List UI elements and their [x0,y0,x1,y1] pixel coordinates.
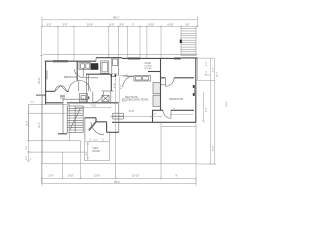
svg-text:4'-10": 4'-10" [122,101,128,103]
svg-text:4'-0": 4'-0" [206,107,208,112]
stairwell left wall [62,99,64,134]
bathroom bottom wall [86,73,111,75]
svg-text:5'-9": 5'-9" [63,24,68,27]
svg-text:14'-11": 14'-11" [39,77,41,84]
patio internal extension [41,95,43,164]
bottom segment dim line [41,178,197,180]
bedroom2 left wall [160,58,162,110]
closet shelves [153,83,161,107]
top wall: bedroom section [45,60,96,62]
svg-text:3'-0": 3'-0" [120,24,125,27]
bottom overall dim line [42,181,196,187]
stairs arrow [70,109,80,130]
patio divider vertical [160,122,162,164]
toilet (dark) [91,63,99,70]
bottom edge line [42,163,197,165]
svg-text:5'-0": 5'-0" [110,24,115,27]
svg-text:48'-1": 48'-1" [113,16,120,20]
bathroom door leaf + arc [82,68,84,77]
svg-text:FLEX: FLEX [93,148,99,150]
bottom extension lines [42,152,196,183]
top dim tick marks [41,25,199,27]
flex room box [85,142,110,161]
kitchen door arc [123,76,134,87]
bench [113,113,124,119]
stairs [67,106,83,133]
hall window hatch [60,95,65,98]
svg-text:BEDROOM: BEDROOM [170,97,183,101]
svg-text:BEDROOM: BEDROOM [64,75,77,79]
svg-text:5'-3": 5'-3" [212,67,214,72]
svg-text:7'-10": 7'-10" [91,106,97,108]
steps bottom-left [29,141,85,152]
hallway strip lines [170,113,194,115]
svg-text:9'-2": 9'-2" [121,84,123,89]
bedroom2 bottom wall [152,109,163,111]
shower [101,61,109,73]
deck (hatched) [181,29,196,56]
wall above stairs [46,102,63,104]
closet wall [148,71,161,73]
hall width dim [115,74,127,104]
right wall lower thin [195,122,197,164]
patio door arc [91,122,104,135]
left step dim vertical [27,104,30,161]
svg-text:10'-6": 10'-6" [87,24,93,27]
vertical wall at 118.5 [118,104,120,133]
bedroom1 bottom wall [46,90,55,92]
W/D door leaf + arc [92,92,94,103]
top extension lines [58,26,161,60]
svg-text:48'-1": 48'-1" [114,180,121,184]
top wall: deck section [181,57,198,59]
svg-text:15'-10": 15'-10" [132,175,140,178]
svg-text:5'-3": 5'-3" [47,24,52,27]
bedroom1 right wall [76,61,78,80]
door label box [80,93,88,102]
left wall [45,61,47,104]
top wall: living section [122,57,181,59]
kitchen counter with sinks [134,76,151,81]
left dim vertical [40,26,43,183]
svg-text:6'-10": 6'-10" [168,24,174,27]
svg-text:4'-0": 4'-0" [152,114,156,116]
svg-text:3'-1": 3'-1" [206,70,208,75]
svg-text:6'-2": 6'-2" [206,61,208,66]
patio left rect [29,105,70,141]
living bottom wall [112,121,196,123]
bifold closet doors (M arcs) [55,86,66,92]
svg-text:24'-8": 24'-8" [226,101,228,107]
top overall dimension line [42,16,198,28]
svg-text:2'-10": 2'-10" [68,175,74,178]
top segment dimension line [42,24,198,27]
bedroom2 door arc [163,110,171,118]
svg-text:5'-10": 5'-10" [149,24,155,27]
svg-text:13'-8": 13'-8" [213,145,215,151]
svg-text:3'-0": 3'-0" [93,140,98,142]
svg-text:3'-6": 3'-6" [26,145,28,150]
bathroom sink counter [79,63,91,70]
svg-text:11'-2": 11'-2" [217,71,219,77]
bedroom1 double door arcs [69,81,91,92]
svg-text:19'-1": 19'-1" [39,122,41,128]
svg-text:3'-0": 3'-0" [31,101,35,103]
svg-text:11'-8": 11'-8" [27,120,29,126]
svg-text:NEW SUITE: NEW SUITE [125,97,138,99]
svg-text:2'-0": 2'-0" [49,175,54,178]
top wall: bathroom section [96,57,122,59]
svg-text:3'-0": 3'-0" [26,155,28,160]
hall wall stubs [111,75,116,77]
right wall [195,58,197,122]
flex room inner dim [87,142,90,161]
svg-text:17'-9": 17'-9" [129,111,135,113]
W/D room [101,91,113,103]
dim line mid2 [110,116,163,118]
svg-text:3'-0": 3'-0" [185,24,190,27]
bedroom2 top wall [161,77,166,79]
wall left of WD [63,98,89,100]
fridge / pantry [112,58,119,75]
svg-text:6'-1": 6'-1" [86,151,88,155]
deck post [180,40,182,43]
bedroom2 window marks [193,85,195,96]
svg-text:ROOM: ROOM [93,151,100,153]
svg-text:21'-0": 21'-0" [94,175,100,178]
wall below stairs [58,133,67,135]
window marks top wall bedroom [53,58,181,62]
landing walls [85,118,119,133]
svg-text:ROOM: ROOM [145,68,152,70]
appliance box with X [102,95,109,101]
right dim verticals [196,58,216,165]
middle vertical dim [115,77,117,179]
svg-text:4'-11": 4'-11" [114,82,116,88]
dim line mid (7'-10") [76,106,112,108]
roof overhang line [43,54,198,56]
deck edge extensions [180,26,182,28]
